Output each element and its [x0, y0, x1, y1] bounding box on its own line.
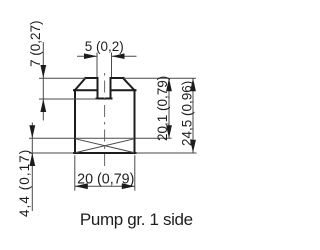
arrow 24.5 top (points up)	[190, 78, 196, 91]
wire dim line 7	[42, 42, 44, 121]
arrow 5 right (points left)	[112, 53, 125, 59]
wire shoulder line right segment	[111, 89, 136, 91]
dimension lines	[32, 42, 193, 211]
wire right chamfer	[123, 78, 134, 90]
wire right edge	[134, 90, 136, 153]
arrow 24.5 bottom (points down)	[190, 140, 196, 153]
part body outline	[74, 78, 136, 153]
arrow 20.1 top (points up)	[166, 78, 172, 91]
arrow 4.4 top (points down)	[29, 125, 35, 138]
cross-hatch region at bottom of body	[75, 138, 135, 152]
arrow 20 left (points left)	[75, 183, 88, 189]
arrow 4.4 bottom (points up)	[29, 153, 35, 166]
extension lines	[29, 53, 197, 191]
dimension labels	[17, 20, 194, 217]
wire x-region top line	[75, 137, 135, 139]
arrow 5 left (points right)	[84, 53, 97, 59]
centerline	[104, 73, 106, 167]
wire left chamfer	[75, 78, 86, 90]
wire bottom edge	[74, 152, 136, 154]
arrowheads	[29, 53, 196, 189]
wire shoulder line left segment	[74, 89, 98, 91]
arrow 7 top (points down)	[40, 65, 46, 78]
svg-text:20,1 (0,79): 20,1 (0,79)	[155, 76, 170, 141]
wire extension top-surface right	[124, 77, 197, 79]
wire extension x-line right	[136, 137, 172, 139]
wire x diagonal 1	[76, 139, 135, 153]
wire extension top-surface left	[39, 77, 86, 79]
wire extension bottom left	[29, 152, 74, 154]
arrow 20.1 bottom (points down)	[166, 125, 172, 138]
svg-text:Pump gr. 1 side: Pump gr. 1 side	[80, 210, 193, 229]
wire extension x-line left	[29, 137, 74, 139]
wire dim line 24.5	[192, 78, 194, 153]
wire dim line 5 right part	[112, 55, 137, 57]
wire top edge left of slot	[86, 77, 97, 79]
wire dim line 5 left part	[77, 55, 97, 57]
wire slot bottom	[97, 98, 112, 100]
wire slot right wall	[110, 78, 112, 99]
wire dim line 20 bottom	[75, 185, 135, 187]
wire extension slot wall right up	[111, 53, 113, 78]
wire x diagonal 2	[76, 139, 135, 153]
svg-text:20 (0,79): 20 (0,79)	[77, 172, 134, 188]
wire extension bottom right	[136, 152, 197, 154]
wire dim line 4.4	[31, 123, 33, 212]
wire extension slot-bottom left	[39, 98, 97, 100]
wire extension bottom-left corner down	[74, 155, 76, 191]
arrow 20 right (points right)	[122, 183, 135, 189]
wire extension slot wall left up	[96, 53, 98, 78]
wire centerline vertical	[104, 73, 106, 167]
arrow 7 bottom (points up)	[40, 99, 46, 112]
svg-text:5 (0,2): 5 (0,2)	[85, 39, 124, 54]
svg-text:24,5 (0,96): 24,5 (0,96)	[180, 81, 195, 146]
svg-text:7 (0,27): 7 (0,27)	[28, 20, 43, 67]
wire slot left wall	[97, 78, 99, 99]
wire top edge right of slot	[112, 77, 124, 79]
wire left edge	[74, 90, 76, 153]
wire dim line 20.1	[168, 78, 170, 138]
svg-text:4,4 (0,17): 4,4 (0,17)	[17, 149, 32, 217]
wire extension bottom-right corner down	[134, 155, 136, 191]
